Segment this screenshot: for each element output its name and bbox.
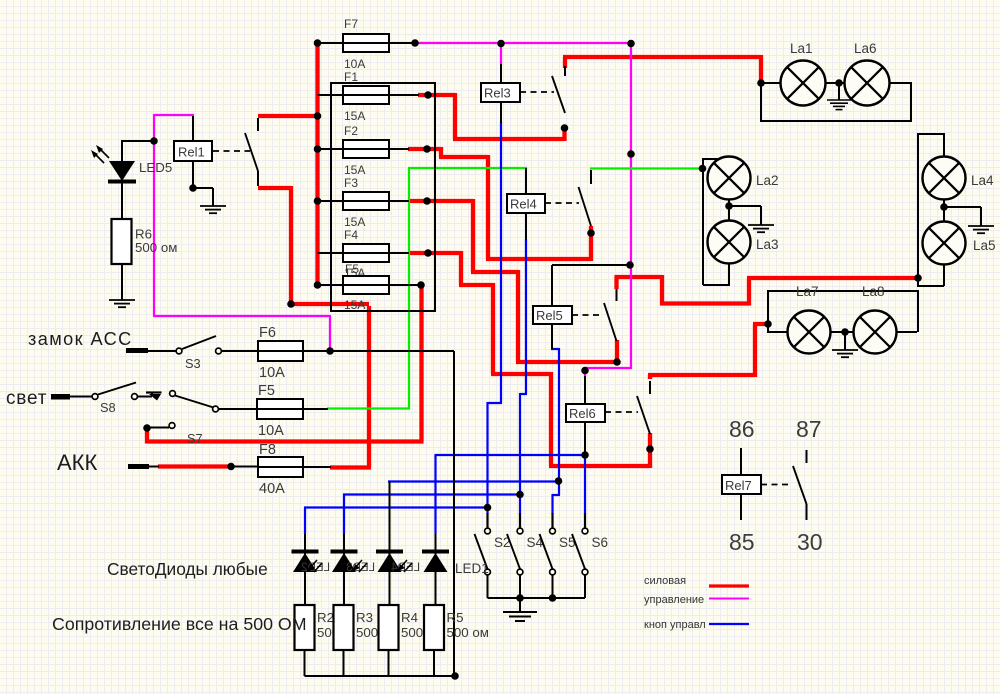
wire F2 output [389, 148, 409, 150]
wire F7 input [318, 42, 344, 44]
wire Rel1 coil bottom to ground [193, 161, 213, 206]
diode LED a wire [304, 534, 306, 605]
wire F8 output [303, 466, 331, 468]
label R3 [356, 610, 378, 640]
svg-text:R4: R4 [401, 610, 418, 625]
svg-text:10A: 10A [259, 365, 285, 381]
svg-text:F1: F1 [344, 70, 358, 84]
svg-text:500 ом: 500 ом [447, 625, 489, 640]
wire blue Rel6 coil to S6 [584, 454, 586, 514]
ground between La4 La5 [944, 207, 994, 233]
wire blue LED3 to Rel5 net [388, 480, 560, 482]
wire S5 feed [551, 513, 553, 528]
svg-text:10A: 10A [258, 423, 284, 439]
mirrored label LED2 [301, 560, 330, 574]
Rel6 dashed link [605, 411, 638, 413]
wire blue LED2 to Rel4 net [343, 495, 521, 535]
wire Rel7 pin85 [740, 494, 742, 520]
diode LED b wire [343, 534, 345, 605]
svg-text:R5: R5 [447, 610, 464, 625]
fuse F2 15A [342, 124, 390, 177]
wire F6 output to resistor bus [329, 351, 454, 676]
wire magenta F7 output bus [415, 42, 631, 44]
wire blue Rel4 coil to S4 [520, 239, 527, 514]
resistor R4 [379, 605, 399, 650]
switch S6 [572, 528, 608, 598]
wire red Rel1 switch top feed [258, 114, 319, 118]
wire S2-S6 ground bus [488, 597, 586, 599]
svg-text:La3: La3 [756, 237, 779, 252]
wire blue Rel3 coil to S2 [488, 122, 503, 514]
svg-text:Rel1: Rel1 [178, 145, 205, 160]
svg-text:La4: La4 [971, 173, 994, 188]
ground between La1 La6 [827, 83, 851, 110]
lamp La2 [708, 157, 779, 200]
svg-text:500: 500 [356, 625, 378, 640]
wire F3 output [389, 200, 409, 202]
diode LED a [292, 552, 319, 573]
label zamok ACC [28, 329, 133, 349]
wire Rel5 coil top to magenta [552, 265, 630, 306]
svg-text:LED3: LED3 [346, 562, 375, 574]
switch S3 [176, 336, 221, 371]
svg-text:40A: 40A [259, 481, 285, 497]
svg-text:10A: 10A [344, 57, 365, 71]
svg-text:кноп управл: кноп управл [644, 619, 706, 631]
resistor R2 [295, 605, 315, 650]
switch S2 [475, 528, 511, 598]
mirrored label LED3 [346, 560, 375, 574]
lamp La6 [845, 41, 890, 106]
legend silovaya [644, 575, 749, 587]
resistor R6 [112, 219, 132, 300]
wire F6 output [303, 350, 331, 352]
switch contact Rel3 [552, 66, 565, 113]
label pin 85 [729, 529, 755, 555]
svg-text:S7: S7 [187, 431, 203, 446]
svg-text:F2: F2 [344, 124, 358, 138]
wire red Rel3 switch top to La1 feed [563, 55, 761, 81]
switch S7 [150, 423, 203, 446]
Rel1 dashed link [213, 150, 250, 152]
wire red F4 output to Rel6 switch [408, 251, 650, 468]
svg-text:S8: S8 [100, 400, 116, 415]
wire R4 bottom [388, 650, 390, 676]
relay Rel5 box [533, 306, 572, 324]
label LED1 [455, 561, 489, 576]
svg-text:R2: R2 [317, 610, 334, 625]
wire La4 to La5 [943, 199, 945, 222]
wire magenta Rel1 net to F6 output [153, 114, 330, 351]
switch svet second pole [170, 391, 219, 412]
svg-text:LED4: LED4 [391, 562, 420, 574]
wire blue LED1 to Rel3 net [304, 508, 489, 535]
svg-text:Rel4: Rel4 [510, 197, 537, 212]
svg-text:15A: 15A [344, 163, 365, 177]
svg-text:La7: La7 [796, 284, 819, 299]
wire S3 to F6 [222, 350, 259, 352]
label R4 [401, 610, 423, 640]
wiper flag [146, 393, 162, 401]
switch contact Rel6 [637, 381, 650, 434]
switch S4 [507, 528, 544, 598]
fuse F7 [342, 17, 390, 71]
wire red F5 fuse output to S7 [147, 284, 424, 444]
wire magenta long vertical to Rel6 coil [585, 44, 632, 377]
wire S8 to wiper [138, 393, 153, 397]
wire dot to F8 [231, 466, 258, 468]
wire red AKK battery segment [158, 464, 233, 468]
legend upravlenie [644, 594, 749, 606]
wire AKK to red [149, 466, 159, 468]
fuse F6 10A [257, 325, 304, 381]
label svet [6, 388, 47, 409]
wire LED3 black feed [389, 482, 391, 535]
lamp La3 [708, 221, 779, 264]
resistor R3 [334, 605, 354, 650]
svg-text:Rel5: Rel5 [536, 308, 563, 323]
wire LED5 top branch [122, 140, 154, 162]
svg-text:87: 87 [796, 416, 822, 442]
relay Rel1 box [174, 141, 212, 161]
svg-text:Rel7: Rel7 [725, 478, 752, 493]
wire green F5 light fuse output to Rel4 coil [327, 168, 527, 410]
wire red Rel6 switch top to La7 La8 feed [648, 324, 768, 379]
wire Rel6 coil top [584, 376, 586, 404]
wire red F3 output to Rel5 switch [408, 199, 617, 364]
fuse F8 40A [257, 442, 304, 497]
LED5 [108, 141, 136, 219]
svg-text:F7: F7 [344, 17, 358, 31]
Rel4 dashed link [545, 202, 579, 204]
fuse F3 15A [342, 176, 390, 229]
wire Rel5 coil bottom [551, 324, 553, 349]
ground between La7 La8 [832, 332, 858, 357]
svg-text:R3: R3 [356, 610, 373, 625]
svg-text:замок АСС: замок АСС [28, 329, 133, 349]
wire La2 to La3 [728, 199, 730, 221]
switch contact Rel4 [579, 170, 592, 226]
svg-text:15A: 15A [344, 109, 365, 123]
wire F5 fuse output [389, 284, 421, 286]
svg-text:LED2: LED2 [301, 562, 330, 574]
switch contact Rel7 [793, 450, 807, 520]
diode LED c [376, 552, 403, 573]
svg-text:86: 86 [729, 416, 755, 442]
wire F4 input [318, 252, 344, 254]
LED5 emission arrows [91, 145, 109, 163]
svg-text:LED1: LED1 [455, 561, 489, 576]
wire R3 bottom [343, 650, 345, 676]
wire F4 output [389, 252, 409, 254]
lamp La5 [923, 222, 996, 265]
label svetodiody [107, 559, 268, 579]
wire R2 bottom [304, 650, 306, 676]
svg-text:500 ом: 500 ом [135, 240, 177, 255]
wire Rel4 coil bottom [525, 213, 527, 240]
wire La4 La5 rail [917, 133, 944, 286]
svg-text:La2: La2 [756, 173, 779, 188]
label R2 [317, 610, 339, 640]
diode LED c wire [389, 534, 391, 605]
label soprotivlenie [52, 614, 307, 634]
wire S2 feed [486, 513, 488, 528]
fuse box enclosure [331, 83, 435, 311]
svg-text:S6: S6 [592, 535, 609, 550]
svg-text:F5: F5 [345, 262, 359, 276]
LED5 label [139, 160, 172, 175]
terminal bar ACC [126, 348, 148, 353]
wire blue LED4 to Rel6 net [435, 455, 587, 534]
label R5 [447, 610, 489, 640]
svg-text:F6: F6 [259, 325, 276, 341]
svg-text:управление: управление [644, 594, 704, 606]
wire red Rel5 switch top to La4 La5 feed [615, 275, 919, 306]
wire R5 bottom [433, 650, 435, 676]
label pin 86 [729, 416, 755, 442]
svg-text:СветоДиоды любые: СветоДиоды любые [107, 559, 268, 579]
wire La1 to La6 [825, 82, 846, 84]
wire Rel3 coil top [500, 64, 502, 83]
wire ACC to S3 [148, 350, 176, 352]
wire red main vertical from F7 to F5 fuse feed [315, 43, 319, 285]
svg-text:15A: 15A [344, 215, 365, 229]
wire S6 feed [584, 513, 586, 528]
svg-text:S3: S3 [185, 356, 201, 371]
wire Rel3 coil bottom [500, 102, 502, 123]
wire red F1 output to Rel3 switch [418, 93, 565, 141]
diode LED b [331, 552, 358, 573]
svg-text:LED5: LED5 [139, 160, 172, 175]
wire F1 output [389, 94, 419, 96]
relay Rel3 box [481, 83, 520, 102]
R6 label [135, 227, 177, 256]
Rel3 dashed link [520, 91, 554, 93]
lamp La7 [788, 284, 831, 354]
wire F7 output [389, 42, 416, 44]
wire red Rel1 switch bottom to F8 output riser [258, 186, 371, 468]
svg-text:Rel6: Rel6 [569, 406, 596, 421]
wire La1 input [761, 82, 782, 84]
svg-text:Сопротивление все на 500 ОМ: Сопротивление все на 500 ОМ [52, 614, 307, 634]
svg-text:La6: La6 [854, 41, 877, 56]
resistor ground bus [305, 675, 456, 677]
Rel7 dashed link [761, 484, 792, 486]
fuse F5 15A [342, 262, 390, 312]
wire Rel4 coil top [525, 168, 527, 194]
resistor R5 [424, 605, 444, 650]
Rel5 dashed link [572, 314, 602, 316]
svg-text:30: 30 [797, 529, 823, 555]
svg-text:La1: La1 [790, 41, 813, 56]
svg-text:свет: свет [6, 388, 47, 409]
svg-text:F4: F4 [344, 228, 358, 242]
wire F3 input [318, 200, 344, 202]
switch S5 [540, 528, 576, 598]
wire F1 input [318, 94, 344, 96]
wire La2 La3 rail [702, 158, 729, 287]
diode LED d [422, 552, 449, 573]
wire Rel7 pin86 [740, 448, 742, 475]
svg-text:АКК: АКК [57, 450, 97, 475]
svg-text:силовая: силовая [644, 575, 686, 587]
wire F5 output black [303, 408, 328, 410]
lamp La8 [854, 284, 897, 354]
ground of switch bus [503, 598, 537, 621]
svg-text:F3: F3 [344, 176, 358, 190]
svg-text:La5: La5 [973, 238, 996, 253]
fuse F5 10A [256, 383, 304, 439]
wire S4 feed [519, 513, 521, 528]
label pin 30 [797, 529, 823, 555]
terminal bar AKK [128, 464, 149, 469]
relay Rel6 box [566, 404, 605, 422]
wire F5 fuse input [318, 284, 344, 286]
wire La1 La6 return loop [761, 82, 912, 122]
relay Rel7 box [722, 475, 761, 494]
wire magenta stub to Rel3 coil [500, 44, 502, 65]
wire Rel1 coil top [192, 116, 194, 141]
wire svet to S8 [70, 396, 92, 398]
relay Rel4 box [507, 194, 545, 213]
svg-text:500: 500 [401, 625, 423, 640]
lamp La1 [781, 41, 826, 106]
svg-text:La8: La8 [862, 284, 885, 299]
wire F2 input [318, 148, 344, 150]
fuse F4 15A [342, 228, 390, 280]
terminal bar svet [51, 394, 70, 400]
switch S8 [92, 383, 137, 416]
wire to F5 fuse [218, 408, 257, 410]
svg-text:F8: F8 [259, 442, 276, 458]
mirrored label LED4 [391, 560, 420, 574]
svg-text:F5: F5 [258, 383, 275, 399]
wire red F2 output to Rel4 switch [408, 147, 591, 261]
ground under Rel1 [200, 206, 226, 213]
wire blue Rel5 coil to S5 [551, 348, 560, 514]
fuse F1 15A [342, 70, 390, 123]
svg-text:15A: 15A [344, 298, 365, 312]
switch contact Rel1 [245, 118, 258, 186]
wire green Rel4 switch top to La2 [590, 167, 703, 169]
diode LED d wire [435, 534, 437, 605]
wire La7 La8 rail [767, 290, 918, 332]
svg-text:Rel3: Rel3 [484, 86, 511, 101]
label AKK [57, 450, 97, 475]
ground between La2 La3 [729, 206, 774, 232]
lamp La4 [923, 157, 995, 200]
wire La7 to La8 [830, 331, 855, 333]
ground under R6 [109, 264, 135, 307]
svg-text:85: 85 [729, 529, 755, 555]
label pin 87 [796, 416, 822, 442]
legend knop upravl [644, 619, 749, 631]
switch contact Rel5 [604, 289, 617, 341]
wire Rel6 coil bottom [584, 421, 586, 455]
